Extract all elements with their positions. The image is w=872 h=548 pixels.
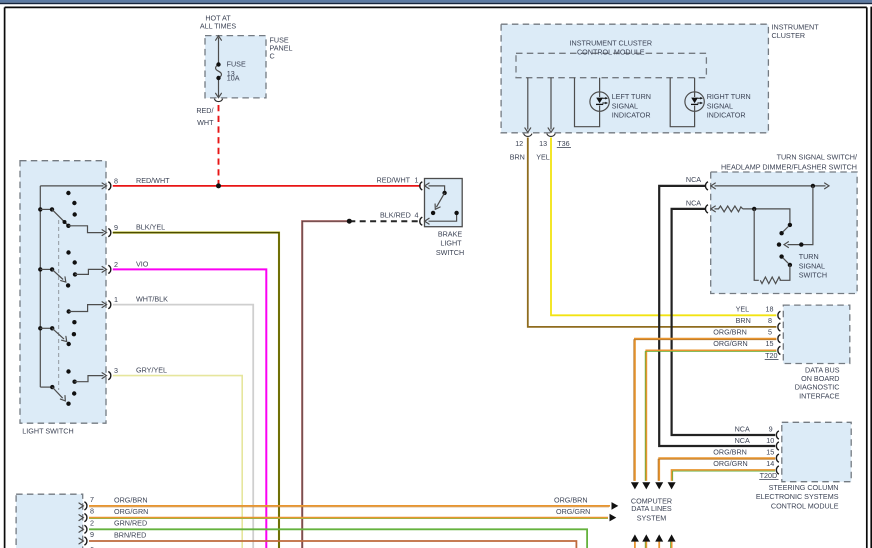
label YEL 18 <box>736 304 774 313</box>
svg-text:CONTROL MODULE: CONTROL MODULE <box>771 501 839 510</box>
svg-text:SWITCH: SWITCH <box>799 271 827 280</box>
svg-text:INSTRUMENT CLUSTER: INSTRUMENT CLUSTER <box>570 38 653 47</box>
TSS upper blade node <box>779 231 783 235</box>
switch S2 <box>38 250 103 287</box>
svg-text:YEL: YEL <box>736 304 750 313</box>
TSS pin2 connector <box>705 205 715 213</box>
TSS upper contact node <box>788 223 792 227</box>
svg-text:STEERING COLUMN: STEERING COLUMN <box>769 483 839 492</box>
fuse F13 element <box>216 65 222 79</box>
wire ORG/GRN bottom to arrow <box>89 518 608 519</box>
svg-text:T20D: T20D <box>760 471 778 480</box>
arrow down ORG/GRN <box>642 482 650 489</box>
svg-text:NCA: NCA <box>735 424 750 433</box>
DB pin18 connector <box>778 311 781 319</box>
fuse node bottom <box>216 76 220 80</box>
top chrome bar <box>0 0 872 3</box>
svg-text:BLK/RED: BLK/RED <box>380 211 411 220</box>
LED right turn indicator <box>685 92 704 111</box>
connector id T20D <box>759 471 778 480</box>
wire BLK/RED solid segment <box>302 221 349 548</box>
label ORG/BRN 5 <box>713 328 772 337</box>
label ORG/BRN 15 <box>713 448 774 457</box>
TSS wire resistor to junction <box>754 209 759 280</box>
resistor R2 <box>760 277 780 284</box>
label FUSE 13 10A <box>227 60 246 83</box>
junction node red <box>216 183 221 188</box>
instrument cluster control module box <box>516 53 706 77</box>
svg-text:ELECTRONIC SYSTEMS: ELECTRONIC SYSTEMS <box>756 492 839 501</box>
svg-text:ALL TIMES: ALL TIMES <box>200 22 237 31</box>
up arrows from below <box>631 534 676 548</box>
label TURN SIGNAL SWITCH/HEADLAMP DIMMER/FLASHER SWITCH <box>721 152 857 171</box>
arrow up at panel top <box>216 36 222 40</box>
svg-text:3: 3 <box>114 366 118 375</box>
label BRAKE LIGHT SWITCH <box>436 229 464 257</box>
bus wire vertical <box>39 186 41 387</box>
arrow right ORG/GRN <box>610 514 617 522</box>
TSS lower contact node <box>788 263 792 267</box>
arrow down at panel bottom <box>216 93 222 97</box>
svg-text:SYSTEM: SYSTEM <box>637 513 667 522</box>
wire GRN/RED <box>89 529 587 548</box>
svg-text:9: 9 <box>769 424 773 433</box>
wire up arrow 4 <box>671 542 673 548</box>
wire BLK/YEL <box>113 233 279 548</box>
steering column module box <box>782 422 851 481</box>
wire YEL <box>551 138 776 316</box>
wire ORG/BRN bottom to arrow <box>89 506 610 507</box>
wire left LED to module <box>599 78 601 92</box>
svg-text:2: 2 <box>114 260 118 269</box>
svg-text:LIGHT SWITCH: LIGHT SWITCH <box>22 426 73 435</box>
svg-text:BRN: BRN <box>736 316 751 325</box>
label LEFT TURN SIGNAL INDICATOR <box>612 92 651 120</box>
label TURN SIGNAL SWITCH <box>799 252 827 280</box>
turn signal switch box <box>711 172 857 294</box>
wire ORG/BRN data bus to arrow <box>634 339 777 481</box>
svg-text:2: 2 <box>90 518 94 527</box>
svg-text:12: 12 <box>515 139 523 148</box>
svg-text:HEADLAMP DIMMER/FLASHER SWITCH: HEADLAMP DIMMER/FLASHER SWITCH <box>721 163 857 172</box>
svg-text:DIAGNOSTIC: DIAGNOSTIC <box>795 383 840 392</box>
svg-text:BRAKE: BRAKE <box>438 229 463 238</box>
wire up arrow 2 <box>645 542 647 548</box>
brake switch pin4 node <box>454 211 458 215</box>
arrow down ORG/BRN SC <box>655 482 663 489</box>
arrow down pin 13 <box>548 128 554 132</box>
brake light switch box <box>425 179 463 227</box>
SC pin14 connector <box>776 466 779 474</box>
svg-text:ON BOARD: ON BOARD <box>801 374 839 383</box>
svg-text:4: 4 <box>415 211 419 220</box>
label STEERING COLUMN ELECTRONIC SYSTEMS CONTROL MODULE <box>756 483 839 510</box>
svg-text:INTERFACE: INTERFACE <box>799 391 840 400</box>
label HOT AT ALL TIMES <box>200 14 237 31</box>
SC pin9 connector <box>776 431 779 439</box>
wire module to left LED <box>575 78 600 127</box>
connector id T20 <box>765 351 779 360</box>
svg-text:FUSE: FUSE <box>227 60 246 69</box>
svg-text:9: 9 <box>114 223 118 232</box>
svg-text:15: 15 <box>766 339 774 348</box>
LED left turn indicator <box>590 92 609 111</box>
svg-text:BLK/YEL: BLK/YEL <box>136 223 165 232</box>
wire fuse feed (vertical inside panel) <box>218 38 220 97</box>
wire WHT/BLK <box>113 305 253 548</box>
wire module to pin 12 <box>527 78 529 130</box>
svg-text:RED/WHT: RED/WHT <box>136 176 170 185</box>
bottom module box <box>16 494 83 548</box>
brake switch internal wire pin1 <box>429 186 445 193</box>
BM pin2 connector <box>79 525 87 533</box>
svg-text:15: 15 <box>766 448 774 457</box>
svg-text:BRN: BRN <box>510 153 525 162</box>
svg-text:CONTROL MODULE: CONTROL MODULE <box>577 48 645 57</box>
DB pin5 connector <box>778 335 781 343</box>
switch S1 <box>38 191 103 233</box>
svg-text:1: 1 <box>114 295 118 304</box>
pin 2 connector <box>102 265 111 273</box>
svg-text:ORG/BRN: ORG/BRN <box>713 448 747 457</box>
svg-text:10: 10 <box>766 436 774 445</box>
svg-text:NCA: NCA <box>686 199 701 208</box>
svg-text:8: 8 <box>768 316 772 325</box>
svg-text:ORG/GRN: ORG/GRN <box>713 339 747 348</box>
switch S3 <box>38 320 77 346</box>
svg-text:WHT: WHT <box>197 118 214 127</box>
label RIGHT TURN SIGNAL INDICATOR <box>707 92 751 120</box>
brake switch internal wire pin4 <box>429 213 457 221</box>
TSS lower blade node <box>779 254 783 258</box>
wire ORG/GRN data bus to arrow <box>645 350 776 481</box>
wire BRN <box>528 138 777 327</box>
wire up arrow 1 <box>634 542 636 548</box>
svg-text:RED/: RED/ <box>196 106 213 115</box>
svg-text:YEL: YEL <box>536 153 550 162</box>
junction node pin1 row <box>811 184 815 188</box>
svg-text:T20: T20 <box>765 351 777 360</box>
svg-text:9: 9 <box>90 530 94 539</box>
svg-text:18: 18 <box>766 304 774 313</box>
svg-text:T36: T36 <box>557 139 569 148</box>
label ORG/GRN 15 <box>713 339 773 348</box>
SC pin15 connector <box>776 454 779 462</box>
svg-text:INDICATOR: INDICATOR <box>707 111 746 120</box>
adjacent page frame edge <box>870 7 872 548</box>
svg-text:GRY/YEL: GRY/YEL <box>136 366 167 375</box>
svg-text:ORG/BRN: ORG/BRN <box>713 328 747 337</box>
brake switch blade <box>436 193 444 207</box>
wire NCA from TSS pin2 to SC pin9 <box>672 209 776 435</box>
pin 1 connector brake switch <box>420 182 429 190</box>
svg-text:NCA: NCA <box>686 175 701 184</box>
wire BLK/RED dashed segment <box>349 220 420 222</box>
svg-text:14: 14 <box>766 459 774 468</box>
svg-text:SIGNAL: SIGNAL <box>612 101 638 110</box>
pin 4 connector brake switch <box>420 217 429 225</box>
connector cup pin 12 <box>524 134 532 137</box>
top chrome navy line <box>0 3 872 4</box>
switch S4 <box>40 369 103 406</box>
label DATA BUS ON BOARD DIAGNOSTIC INTERFACE <box>795 365 840 400</box>
svg-text:GRN/RED: GRN/RED <box>114 519 147 528</box>
wire BRN/RED <box>89 541 576 548</box>
svg-text:ORG/BRN: ORG/BRN <box>114 495 148 504</box>
svg-text:ORG/GRN: ORG/GRN <box>114 507 148 516</box>
svg-text:C: C <box>270 52 275 61</box>
TSS wire R1 to corner <box>743 209 790 223</box>
svg-text:RED/WHT: RED/WHT <box>377 175 411 184</box>
wire RED/WHT pin8 to brake light switch <box>113 185 421 187</box>
BM pin8 connector <box>79 514 87 522</box>
svg-text:RIGHT TURN: RIGHT TURN <box>707 92 751 101</box>
TSS pin1 connector <box>705 182 715 190</box>
data bus interface box <box>783 305 850 363</box>
svg-text:13: 13 <box>539 139 547 148</box>
svg-text:DATA LINES: DATA LINES <box>631 504 672 513</box>
connector cup below fuse panel <box>214 99 222 102</box>
label INSTRUMENT CLUSTER CONTROL MODULE <box>570 38 653 56</box>
wire contact to pin 1 <box>67 305 104 314</box>
connector cup pin 13 <box>547 134 555 137</box>
label FUSE PANEL C <box>270 36 293 61</box>
svg-text:ORG/GRN: ORG/GRN <box>713 459 747 468</box>
pin 3 connector <box>102 372 111 380</box>
arrow down pin 12 <box>525 128 531 132</box>
label COMPUTER DATA LINES SYSTEM <box>631 497 672 523</box>
svg-text:WHT/BLK: WHT/BLK <box>136 295 168 304</box>
TSS wire lower contact to resistor <box>780 265 790 280</box>
wire NCA from TSS pin1 to SC pin10 <box>659 186 775 446</box>
wire ORG/GRN SC pin14 to arrow <box>672 470 776 481</box>
arrow right ORG/BRN <box>612 502 619 510</box>
dashed guide line <box>58 220 60 390</box>
svg-text:ORG/BRN: ORG/BRN <box>554 495 588 504</box>
svg-text:5: 5 <box>768 328 772 337</box>
wire module to pin 13 <box>550 78 552 130</box>
svg-text:7: 7 <box>90 495 94 504</box>
svg-text:1: 1 <box>415 175 419 184</box>
junction node R1 row <box>752 207 756 211</box>
arrow right end pin1 row <box>825 183 829 189</box>
svg-text:10A: 10A <box>227 74 240 83</box>
TSS upper blade <box>783 227 788 232</box>
pin 9 connector <box>102 229 111 237</box>
BM pin7 connector <box>79 502 87 510</box>
brake switch contact node <box>431 211 435 215</box>
svg-text:8: 8 <box>114 176 118 185</box>
label BRN 8 <box>736 316 772 325</box>
label NCA 9 <box>735 424 773 433</box>
BM pin9 connector <box>79 537 87 545</box>
svg-text:VIO: VIO <box>136 259 149 268</box>
wire VIO <box>113 269 266 548</box>
svg-text:8: 8 <box>90 507 94 516</box>
svg-text:LIGHT: LIGHT <box>440 239 462 248</box>
svg-text:TURN: TURN <box>799 252 819 261</box>
label NCA 10 <box>735 436 775 445</box>
wire bus to pin 8 <box>40 185 103 187</box>
arrow down ORG/GRN SC <box>668 482 676 489</box>
wire right LED to module <box>694 78 696 92</box>
TSS contact arm with arrow <box>777 186 813 248</box>
wire module to right LED <box>670 78 694 127</box>
resistor R1 <box>715 206 743 212</box>
label ORG/GRN 14 <box>713 459 774 468</box>
svg-text:DATA BUS: DATA BUS <box>805 365 840 374</box>
svg-text:CLUSTER: CLUSTER <box>772 31 806 40</box>
svg-text:ORG/GRN: ORG/GRN <box>556 507 590 516</box>
svg-text:NCA: NCA <box>735 436 750 445</box>
svg-text:SIGNAL: SIGNAL <box>799 261 825 270</box>
svg-text:SWITCH: SWITCH <box>436 248 464 257</box>
TSS internal wire pin1 row <box>715 185 826 187</box>
brake switch pivot node <box>442 191 446 195</box>
DB pin15 connector <box>778 346 781 354</box>
junction node BLK/RED <box>347 219 352 224</box>
light switch box <box>20 161 106 424</box>
instrument cluster box <box>501 24 768 133</box>
svg-text:LEFT TURN: LEFT TURN <box>612 92 651 101</box>
label RED/ WHT <box>196 106 214 127</box>
svg-text:BRN/RED: BRN/RED <box>114 530 146 539</box>
label INSTRUMENT CLUSTER (outside) <box>772 22 820 40</box>
DB pin8 connector <box>778 323 781 331</box>
arrow down ORG/BRN <box>631 482 639 489</box>
wire RED/WHT dashed from fuse <box>218 105 220 184</box>
fuse node top <box>216 62 220 66</box>
pin 8 connector <box>102 182 111 190</box>
SC pin10 connector <box>776 442 779 450</box>
TSS lower blade <box>783 258 788 263</box>
pin 1 connector <box>102 301 111 309</box>
wire ORG/BRN SC pin15 to arrow <box>658 458 775 481</box>
svg-text:SIGNAL: SIGNAL <box>707 101 733 110</box>
fuse panel box <box>205 36 266 98</box>
connector id T36 <box>557 139 571 148</box>
wire GRY/YEL <box>113 376 242 548</box>
svg-text:TURN SIGNAL SWITCH/: TURN SIGNAL SWITCH/ <box>777 152 857 161</box>
svg-text:INDICATOR: INDICATOR <box>612 111 651 120</box>
wire up arrow 3 <box>658 542 660 548</box>
